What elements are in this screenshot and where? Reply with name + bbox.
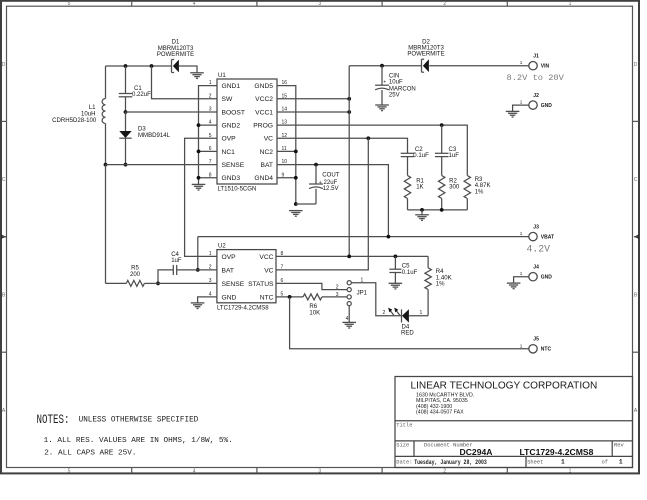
wire PROG bbox=[277, 125, 467, 175]
node junction BOOST bbox=[124, 110, 128, 114]
wire R1 R2 R3 bottoms bbox=[408, 199, 468, 210]
wire OVP U1 to U2 bbox=[185, 138, 217, 256]
wire SW node top bbox=[106, 65, 172, 67]
label D4 bbox=[383, 310, 423, 337]
connector J3 bbox=[529, 232, 537, 240]
connector J5 bbox=[529, 345, 537, 353]
capacitor C4 bbox=[173, 265, 176, 275]
node junction bus pin11 bbox=[294, 150, 298, 154]
label D2 bbox=[407, 39, 444, 57]
resistor R3 bbox=[464, 176, 470, 199]
ground at J2 bbox=[506, 111, 520, 117]
label date field bbox=[396, 459, 487, 466]
svg-text:CDRH5D28-100: CDRH5D28-100 bbox=[52, 118, 97, 124]
svg-text:COUT: COUT bbox=[322, 172, 339, 178]
wire J2 to ground bbox=[513, 105, 529, 111]
svg-text:R2: R2 bbox=[449, 178, 457, 184]
svg-text:BAT: BAT bbox=[260, 162, 273, 169]
svg-text:R6: R6 bbox=[309, 304, 317, 310]
node junction COUT return bbox=[294, 202, 298, 206]
svg-text:D4: D4 bbox=[402, 324, 410, 330]
resistor R2 bbox=[439, 176, 445, 199]
svg-text:U1: U1 bbox=[218, 73, 226, 79]
label J3 bbox=[520, 224, 554, 240]
svg-text:J3: J3 bbox=[533, 224, 539, 230]
diode D4 LED bbox=[402, 309, 429, 322]
label R5 bbox=[130, 266, 141, 278]
wire C4 left riser bbox=[158, 270, 173, 284]
svg-text:1: 1 bbox=[569, 468, 572, 474]
label U2 part bbox=[217, 305, 269, 311]
svg-text:SENSE: SENSE bbox=[222, 162, 245, 169]
svg-text:Rev: Rev bbox=[614, 443, 624, 449]
svg-text:4: 4 bbox=[193, 468, 196, 474]
svg-text:PROG: PROG bbox=[253, 123, 273, 130]
title block box bbox=[395, 377, 633, 468]
label CIN bbox=[383, 73, 415, 98]
jumper JP1 pin4 bbox=[347, 302, 351, 306]
label U1 part bbox=[218, 187, 257, 193]
svg-text:2: 2 bbox=[443, 1, 446, 7]
label U1 refdes bbox=[218, 73, 226, 79]
svg-text:3: 3 bbox=[318, 1, 321, 7]
svg-text:J1: J1 bbox=[533, 53, 539, 59]
label company bbox=[411, 380, 598, 391]
node junction C5 bbox=[394, 255, 398, 259]
svg-text:2: 2 bbox=[209, 93, 212, 99]
svg-text:10K: 10K bbox=[309, 310, 320, 316]
svg-text:Size: Size bbox=[396, 443, 409, 449]
svg-text:4: 4 bbox=[346, 316, 349, 322]
svg-text:1: 1 bbox=[520, 231, 523, 236]
label size field bbox=[396, 443, 624, 449]
label note 2 bbox=[44, 449, 136, 457]
label R1 bbox=[416, 178, 424, 190]
svg-text:GND: GND bbox=[541, 275, 553, 281]
label sheet field bbox=[527, 459, 623, 466]
wire VC to U2 bbox=[276, 138, 368, 270]
svg-text:1: 1 bbox=[209, 251, 212, 257]
svg-text:C3: C3 bbox=[449, 147, 457, 153]
ground at U2 bbox=[191, 303, 205, 309]
svg-text:RED: RED bbox=[401, 331, 414, 337]
node junction L1-bottom bbox=[104, 163, 108, 167]
svg-text:300: 300 bbox=[449, 185, 460, 191]
resistor R5 bbox=[106, 165, 159, 287]
svg-text:C5: C5 bbox=[402, 263, 410, 269]
svg-text:1: 1 bbox=[619, 459, 623, 466]
svg-text:Tuesday, January 28, 2003: Tuesday, January 28, 2003 bbox=[414, 459, 487, 466]
node junction VCC2-rail bbox=[347, 97, 351, 101]
wire U2 VCC bbox=[276, 255, 428, 257]
svg-text:2. ALL CAPS ARE 25V.: 2. ALL CAPS ARE 25V. bbox=[44, 449, 136, 457]
svg-text:22uF: 22uF bbox=[324, 180, 338, 186]
node junction C1-top bbox=[124, 64, 128, 68]
label C1 bbox=[132, 86, 151, 98]
label J5 bbox=[520, 337, 552, 353]
svg-text:1: 1 bbox=[520, 343, 523, 348]
node junction VIN-U2VCC bbox=[347, 255, 351, 259]
node junction bus pin9 bbox=[294, 176, 298, 180]
ground at U1 bus bbox=[192, 184, 206, 190]
label R4 bbox=[436, 269, 452, 287]
node junction bus pin6 bbox=[197, 150, 201, 154]
svg-text:Sheet: Sheet bbox=[527, 459, 543, 465]
svg-text:C4: C4 bbox=[171, 252, 179, 258]
wire U2 GND bbox=[198, 297, 217, 303]
capacitor C5 bbox=[389, 256, 401, 283]
svg-text:5: 5 bbox=[68, 468, 71, 474]
capacitor CIN bbox=[375, 66, 389, 105]
svg-text:Date:: Date: bbox=[396, 459, 412, 465]
ground at JP1 bbox=[342, 322, 356, 328]
ground at C5 bbox=[389, 283, 403, 289]
svg-text:NC2: NC2 bbox=[260, 149, 274, 156]
svg-text:4.87K: 4.87K bbox=[475, 183, 491, 189]
svg-text:MMBD914L: MMBD914L bbox=[138, 133, 171, 139]
svg-text:+: + bbox=[383, 79, 386, 85]
node junction VC branch bbox=[366, 136, 370, 140]
svg-text:D1: D1 bbox=[172, 40, 180, 46]
svg-text:R3: R3 bbox=[475, 177, 483, 183]
connector J2 bbox=[529, 101, 537, 109]
wire SW to pin2 bbox=[152, 66, 218, 99]
resistor R6 bbox=[303, 294, 347, 300]
label VBAT voltage bbox=[527, 243, 551, 254]
node junction U2 BAT bbox=[196, 268, 200, 272]
wire VIN top bbox=[349, 65, 528, 67]
svg-text:GND2: GND2 bbox=[222, 123, 241, 130]
ground at CIN bbox=[375, 105, 389, 111]
capacitor C3 bbox=[435, 125, 449, 175]
label title field bbox=[396, 423, 412, 429]
svg-text:DC294A: DC294A bbox=[460, 447, 493, 457]
node junction D3-SENSE bbox=[124, 163, 128, 167]
wire NTC from U2 bbox=[276, 296, 303, 298]
label R3 bbox=[475, 177, 491, 195]
svg-text:OVP: OVP bbox=[222, 254, 237, 261]
wire SENSE line bbox=[106, 164, 218, 166]
ground at D1 bbox=[190, 73, 204, 79]
svg-text:LINEAR TECHNOLOGY CORPORATION: LINEAR TECHNOLOGY CORPORATION bbox=[411, 380, 598, 391]
resistor R4 bbox=[425, 256, 431, 315]
U1 pin name and number labels bbox=[209, 80, 288, 182]
node junction R2 bottom bbox=[440, 208, 444, 212]
svg-text:GND1: GND1 bbox=[222, 83, 241, 90]
node junction bus pin4 bbox=[197, 123, 201, 127]
svg-text:C1: C1 bbox=[134, 86, 142, 92]
svg-text:UNLESS OTHERWISE SPECIFIED: UNLESS OTHERWISE SPECIFIED bbox=[79, 415, 199, 425]
svg-text:of: of bbox=[602, 459, 608, 465]
svg-text:D: D bbox=[2, 62, 6, 68]
U2 pin name and number labels bbox=[209, 251, 284, 301]
svg-text:VIN: VIN bbox=[541, 64, 550, 70]
connector J1 bbox=[529, 61, 537, 69]
svg-text:SENSE: SENSE bbox=[222, 281, 245, 288]
svg-text:NTC: NTC bbox=[541, 347, 552, 353]
svg-text:VC: VC bbox=[264, 267, 273, 274]
svg-text:R4: R4 bbox=[436, 269, 444, 275]
diode D3 bbox=[119, 112, 131, 165]
svg-text:POWERMITE: POWERMITE bbox=[407, 52, 444, 58]
wire VCC2 bbox=[277, 98, 349, 100]
label address bbox=[416, 393, 474, 416]
op-amp U2 box bbox=[217, 250, 276, 303]
svg-text:L1: L1 bbox=[89, 105, 96, 111]
connector J4 bbox=[529, 273, 537, 281]
svg-text:3: 3 bbox=[318, 468, 321, 474]
svg-text:GND5: GND5 bbox=[254, 83, 273, 90]
svg-text:1%: 1% bbox=[475, 189, 484, 195]
svg-text:25V: 25V bbox=[389, 93, 400, 99]
node junction CIN bbox=[380, 64, 384, 68]
node junction COUT bbox=[314, 163, 318, 167]
resistor R1 bbox=[404, 176, 410, 199]
node junction VCC1-rail bbox=[347, 110, 351, 114]
svg-text:1: 1 bbox=[520, 100, 523, 105]
svg-text:1uF: 1uF bbox=[449, 153, 460, 159]
jumper JP1 pin3 bbox=[347, 295, 351, 299]
svg-text:C2: C2 bbox=[415, 147, 423, 153]
wire VIN rail bbox=[348, 66, 350, 257]
svg-text:GND: GND bbox=[541, 103, 553, 109]
wire JP1 pin1 to D4 bbox=[351, 283, 401, 316]
wire BOOST bbox=[126, 111, 218, 113]
ground at J4 bbox=[507, 283, 521, 289]
jumper JP1 pin2 bbox=[347, 288, 351, 292]
wire STATUS bbox=[276, 283, 347, 289]
svg-text:SW: SW bbox=[222, 96, 233, 103]
svg-text:10uH: 10uH bbox=[81, 112, 95, 118]
svg-text:VCC: VCC bbox=[259, 254, 273, 261]
label R2 bbox=[449, 178, 460, 190]
svg-text:0.1uF: 0.1uF bbox=[413, 153, 429, 159]
svg-text:JP1: JP1 bbox=[357, 290, 368, 296]
svg-text:OVP: OVP bbox=[222, 136, 237, 143]
node junction C3-PROG bbox=[440, 123, 444, 127]
svg-text:MBRM120T3: MBRM120T3 bbox=[408, 45, 444, 51]
svg-text:BOOST: BOOST bbox=[222, 109, 245, 116]
svg-text:VCC1: VCC1 bbox=[255, 109, 273, 116]
wire U2 BAT bbox=[177, 269, 217, 271]
label JP1 bbox=[336, 277, 368, 322]
wire U1 right bus bbox=[277, 86, 296, 204]
label U2 refdes bbox=[218, 244, 226, 250]
node junction divider ground bbox=[420, 208, 424, 212]
D4 LED arrows bbox=[388, 308, 400, 316]
svg-text:NC1: NC1 bbox=[222, 149, 236, 156]
label notes bbox=[37, 413, 199, 427]
svg-text:7: 7 bbox=[209, 159, 212, 165]
diode D1 bbox=[172, 60, 179, 73]
svg-text:POWERMITE: POWERMITE bbox=[157, 52, 194, 58]
label D1 bbox=[157, 40, 194, 58]
jumper JP1 pin1 bbox=[347, 281, 351, 285]
svg-text:1.40K: 1.40K bbox=[436, 275, 452, 281]
svg-text:4: 4 bbox=[193, 1, 196, 7]
label C5 bbox=[402, 263, 418, 275]
wire VC bbox=[277, 138, 408, 153]
svg-text:NTC: NTC bbox=[260, 294, 274, 301]
ground at U1 right bus bbox=[289, 211, 303, 217]
svg-text:2: 2 bbox=[383, 310, 386, 316]
wire VBAT down to BAT bbox=[197, 237, 199, 270]
svg-text:GND: GND bbox=[222, 294, 237, 301]
svg-text:J4: J4 bbox=[533, 264, 539, 270]
svg-text:VCC2: VCC2 bbox=[255, 96, 273, 103]
svg-text:+: + bbox=[319, 180, 322, 186]
label COUT bbox=[319, 172, 340, 192]
svg-text:D: D bbox=[634, 62, 638, 68]
svg-text:1: 1 bbox=[420, 310, 423, 316]
svg-text:STATUS: STATUS bbox=[248, 281, 274, 288]
svg-text:1uF: 1uF bbox=[171, 258, 182, 264]
label VIN range bbox=[507, 73, 565, 83]
svg-text:BAT: BAT bbox=[222, 267, 235, 274]
svg-text:1: 1 bbox=[569, 1, 572, 7]
svg-text:1: 1 bbox=[520, 60, 523, 65]
wire JP1 pin4 to ground bbox=[348, 306, 350, 323]
label R6 bbox=[309, 304, 320, 316]
ground at divider bbox=[415, 210, 429, 221]
svg-text:U2: U2 bbox=[218, 244, 226, 250]
node junction SENSE-C4 bbox=[156, 282, 160, 286]
svg-text:1: 1 bbox=[561, 459, 565, 466]
label C4 bbox=[171, 252, 182, 264]
label J4 bbox=[520, 264, 553, 280]
svg-text:7: 7 bbox=[281, 265, 284, 271]
wire BAT bbox=[277, 165, 388, 237]
svg-text:LTC1729-4.2CMS8: LTC1729-4.2CMS8 bbox=[217, 305, 269, 311]
node junction bus pin8 bbox=[197, 176, 201, 180]
capacitor C2 bbox=[401, 153, 415, 175]
svg-text:VBAT: VBAT bbox=[541, 235, 554, 241]
wire SENSE U2 bbox=[158, 282, 217, 284]
label note 1 bbox=[44, 437, 233, 445]
wire VCC1 bbox=[277, 111, 349, 113]
svg-text:LTC1729-4.2CMS8: LTC1729-4.2CMS8 bbox=[520, 447, 594, 457]
svg-text:Title: Title bbox=[396, 423, 412, 429]
svg-text:J2: J2 bbox=[533, 93, 539, 99]
svg-text:1%: 1% bbox=[436, 282, 445, 288]
svg-text:2: 2 bbox=[443, 468, 446, 474]
wire J4 to ground bbox=[514, 277, 529, 283]
op-amp U1 box bbox=[217, 79, 277, 184]
svg-text:LT1510-5CGN: LT1510-5CGN bbox=[218, 187, 257, 193]
svg-text:GND3: GND3 bbox=[222, 175, 241, 182]
wire VBAT line bbox=[198, 236, 529, 238]
svg-text:J5: J5 bbox=[533, 337, 539, 343]
svg-text:4.2V: 4.2V bbox=[527, 243, 551, 254]
svg-text:3: 3 bbox=[336, 292, 339, 298]
svg-text:MBRM120T3: MBRM120T3 bbox=[158, 46, 194, 52]
svg-text:C: C bbox=[2, 177, 6, 183]
svg-text:0.1uF: 0.1uF bbox=[402, 270, 418, 276]
svg-text:GND4: GND4 bbox=[254, 175, 273, 182]
label J2 bbox=[520, 93, 553, 109]
label C2 bbox=[413, 147, 429, 159]
svg-text:5: 5 bbox=[68, 1, 71, 7]
capacitor C1 bbox=[119, 66, 133, 112]
label J1 bbox=[520, 53, 550, 69]
diode D2 bbox=[422, 59, 429, 72]
svg-text:1: 1 bbox=[520, 271, 523, 276]
svg-text:8.2V to 20V: 8.2V to 20V bbox=[507, 73, 565, 83]
svg-text:VC: VC bbox=[264, 136, 273, 143]
wire D1 anode to ground bbox=[179, 66, 197, 73]
svg-text:0.22uF: 0.22uF bbox=[132, 92, 151, 98]
inductor L1 bbox=[102, 66, 105, 165]
svg-text:2: 2 bbox=[336, 285, 339, 291]
svg-text:1. ALL RES. VALUES ARE IN OHM: 1. ALL RES. VALUES ARE IN OHMS, 1/8W, 5%… bbox=[44, 437, 233, 445]
node junction NTC bbox=[288, 295, 292, 299]
wire NTC to J5 bbox=[290, 297, 529, 349]
frame centering arrows bbox=[1, 235, 639, 239]
svg-text:1K: 1K bbox=[416, 185, 423, 191]
label C3 bbox=[449, 147, 460, 159]
svg-text:12.5V: 12.5V bbox=[323, 186, 339, 192]
label document number bbox=[460, 447, 594, 457]
wire U1 gnd bus bbox=[199, 86, 218, 185]
svg-text:(408) 434-0507 FAX: (408) 434-0507 FAX bbox=[416, 409, 464, 415]
node junction VBAT bbox=[387, 235, 391, 239]
svg-text:D3: D3 bbox=[138, 126, 146, 132]
svg-text:R5: R5 bbox=[131, 266, 139, 272]
svg-text:R1: R1 bbox=[416, 178, 424, 184]
label L1 bbox=[52, 105, 97, 124]
svg-text:10uF: 10uF bbox=[389, 79, 403, 85]
svg-text:3: 3 bbox=[209, 107, 212, 113]
capacitor COUT bbox=[296, 165, 323, 204]
svg-text:NOTES:: NOTES: bbox=[37, 413, 70, 427]
node junction SW-drop bbox=[150, 64, 154, 68]
svg-text:200: 200 bbox=[130, 272, 141, 278]
svg-text:C: C bbox=[634, 177, 638, 183]
label D3 bbox=[138, 126, 171, 139]
